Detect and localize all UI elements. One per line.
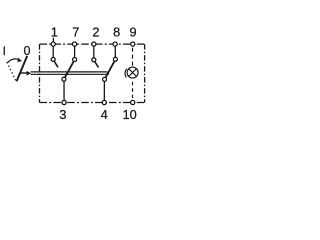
svg-text:1: 1 (51, 25, 58, 40)
lamp left arc mark (125, 69, 127, 78)
switch blade pole 1 (closed 3-7) (64, 60, 75, 80)
svg-text:4: 4 (101, 107, 108, 122)
svg-text:8: 8 (113, 25, 120, 40)
wire: link from lever to arrowhead (20, 72, 27, 74)
svg-text:3: 3 (59, 107, 66, 122)
wire: lead pivot to terminal 4 (103, 79, 105, 102)
actuator lever solid (position 0) (17, 56, 28, 81)
actuator lever dotted (position I) (7, 62, 16, 80)
terminal circle 3 (62, 100, 66, 104)
terminal circle 10 (131, 100, 135, 104)
svg-text:0: 0 (24, 44, 31, 58)
wire: lead terminal 8 to contact (114, 44, 116, 59)
wire: lead pivot to terminal 3 (63, 79, 65, 102)
terminal circle 2 (92, 42, 96, 46)
terminal circle 4 (102, 100, 106, 104)
terminal circle 7 (73, 42, 77, 46)
actuator bar (mechanical link, double line with pointed end) (31, 72, 109, 74)
open blade stub at contact 2 (94, 61, 98, 68)
svg-text:10: 10 (122, 107, 136, 122)
wire: stub above terminal 1 (52, 38, 54, 43)
svg-text:2: 2 (92, 25, 99, 40)
terminal circle 9 (131, 42, 135, 46)
lamp leads (dashed) terminal 9 to lamp, lamp to terminal 10 (132, 48, 134, 67)
actuator motion arc with arrow (7, 59, 19, 63)
terminal circle 1 (51, 42, 55, 46)
svg-text:7: 7 (72, 25, 79, 40)
contact circle under 8 (113, 57, 117, 61)
wire: lead terminal 7 to contact (74, 44, 76, 59)
switch blade pole 2 (closed 4-8) (105, 59, 116, 79)
terminal circle 8 (113, 42, 117, 46)
wire: lead terminal 1 to contact (52, 44, 54, 59)
contact circle under 7 (73, 58, 77, 62)
pivot circle above 4 (103, 77, 107, 81)
enclosure dashed box (switch body outline) (40, 44, 145, 102)
open blade stub at contact 1 (54, 61, 58, 68)
svg-text:I: I (3, 44, 6, 58)
pivot circle above 3 (62, 77, 66, 81)
wire: lead terminal 2 to contact (93, 44, 95, 60)
actuator link arrowhead (27, 71, 31, 76)
svg-text:9: 9 (130, 25, 137, 40)
lamp L1 (circle with cross) (127, 67, 138, 78)
contact circle under 1 (51, 57, 55, 61)
contact circle under 2 (92, 58, 96, 62)
